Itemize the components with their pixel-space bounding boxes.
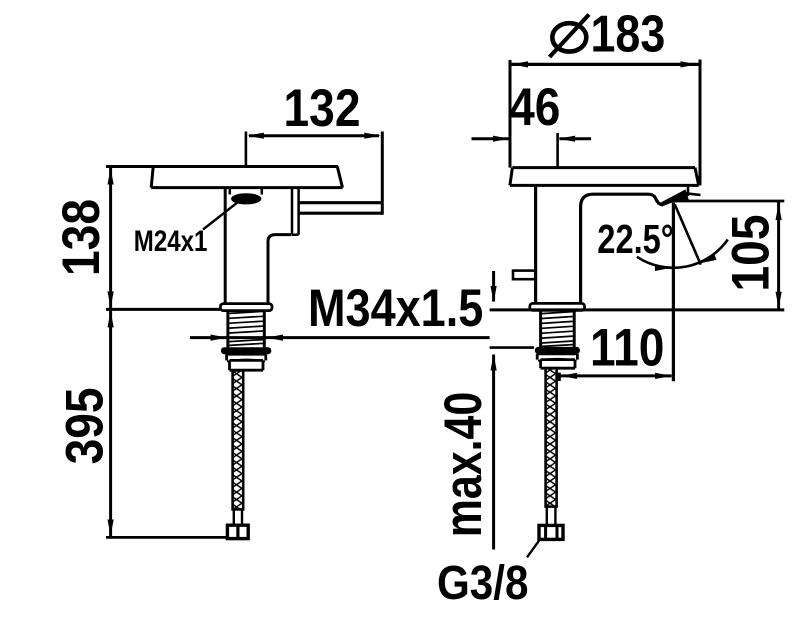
svg-text:105: 105 [720,215,780,292]
svg-text:M24x1: M24x1 [134,225,208,258]
svg-text:138: 138 [51,199,111,276]
svg-text:132: 132 [284,78,361,138]
svg-text:G3/8: G3/8 [437,555,528,609]
svg-text:M34x1.5: M34x1.5 [308,279,483,338]
svg-text:46: 46 [509,77,560,137]
svg-text:110: 110 [590,317,664,377]
svg-text:183: 183 [591,6,666,64]
svg-text:max.40: max.40 [434,392,493,538]
svg-text:22.5°: 22.5° [597,217,674,262]
svg-text:395: 395 [54,387,114,464]
